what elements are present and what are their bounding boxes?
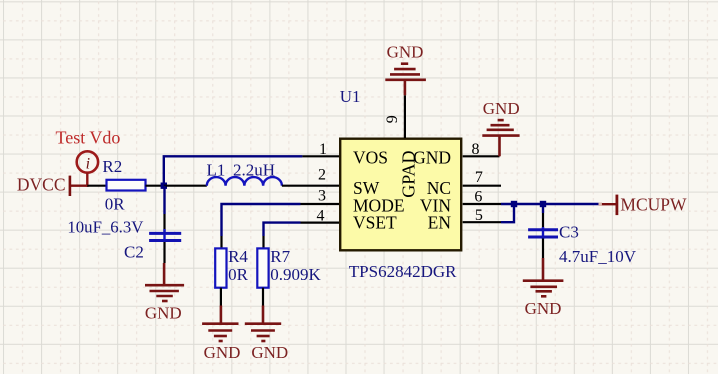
svg-text:GND: GND xyxy=(483,99,520,118)
pin 7 NC xyxy=(427,169,501,198)
svg-text:R4: R4 xyxy=(228,247,248,266)
port MCUPW xyxy=(602,195,687,216)
capacitor C3 xyxy=(528,204,637,266)
ground GND (C2) xyxy=(145,263,184,322)
svg-text:DVCC: DVCC xyxy=(17,174,66,194)
port DVCC xyxy=(17,174,89,196)
svg-text:R7: R7 xyxy=(270,247,290,266)
junction at R2/C2/L1 node xyxy=(161,183,167,189)
inductor L1 xyxy=(207,161,282,186)
wire MODE net: pin3 over and down to R4 xyxy=(222,204,301,236)
svg-text:MCUPW: MCUPW xyxy=(620,195,687,215)
pin 8 GND xyxy=(413,141,499,168)
pin 1 VOS xyxy=(302,141,388,168)
junction EN/VIN xyxy=(511,201,517,207)
svg-text:i: i xyxy=(86,155,90,172)
svg-text:9: 9 xyxy=(384,115,401,123)
pin 9 GPAD xyxy=(384,95,419,198)
pin 4 VSET xyxy=(301,207,398,232)
wire L1 to pin 2 xyxy=(282,185,339,187)
svg-text:GND: GND xyxy=(413,148,451,168)
svg-text:GND: GND xyxy=(387,42,424,61)
svg-text:C2: C2 xyxy=(124,243,144,262)
wire junction to L1 xyxy=(164,185,207,187)
svg-text:GND: GND xyxy=(145,303,182,322)
IC U1 TPS62842DGR body xyxy=(340,139,461,281)
svg-text:4.7uF_10V: 4.7uF_10V xyxy=(559,247,637,266)
svg-text:TPS62842DGR: TPS62842DGR xyxy=(349,262,457,281)
svg-text:10uF_6.3V: 10uF_6.3V xyxy=(67,218,143,237)
svg-text:VOS: VOS xyxy=(353,148,388,168)
wire net VOS: junction up and over to pin 1 xyxy=(164,156,303,185)
svg-text:0R: 0R xyxy=(105,195,126,214)
svg-text:4: 4 xyxy=(317,207,325,224)
svg-text:3: 3 xyxy=(318,188,326,205)
pin 3 MODE xyxy=(301,188,405,216)
svg-text:6: 6 xyxy=(474,188,482,205)
pin 2 SW xyxy=(318,167,380,198)
resistor R2 xyxy=(87,157,164,214)
ground GND (pin 9) xyxy=(385,42,426,95)
svg-text:8: 8 xyxy=(472,141,480,158)
svg-text:1: 1 xyxy=(319,141,327,158)
resistor R7 xyxy=(257,247,321,306)
ground GND (R7) xyxy=(245,306,288,362)
svg-text:GND: GND xyxy=(251,343,288,362)
ground GND (R4) xyxy=(202,306,240,362)
svg-text:GND: GND xyxy=(204,343,241,362)
ground GND (pin 8) xyxy=(482,99,519,156)
pin 5 EN xyxy=(428,207,501,233)
svg-text:2: 2 xyxy=(318,167,326,184)
svg-text:EN: EN xyxy=(428,212,452,232)
no-ERC marker at wire end xyxy=(599,203,603,207)
svg-text:GND: GND xyxy=(525,299,562,318)
ground GND (C3) xyxy=(523,258,564,318)
svg-text:0.909K: 0.909K xyxy=(270,265,321,284)
capacitor C2 xyxy=(67,186,181,263)
resistor R4 xyxy=(215,247,248,306)
svg-text:VSET: VSET xyxy=(353,212,397,232)
wire VIN net: pin 6 to MCUPW xyxy=(501,203,601,205)
wire VSET net: pin4 over and down to R7 xyxy=(264,223,301,236)
svg-text:7: 7 xyxy=(475,169,483,186)
junction C3/VIN xyxy=(540,201,546,207)
svg-text:Test Vdo: Test Vdo xyxy=(56,128,121,148)
svg-text:R2: R2 xyxy=(102,157,122,176)
pin 6 VIN xyxy=(420,188,501,215)
test point TP (Test Vdo) xyxy=(56,128,121,187)
svg-text:C3: C3 xyxy=(559,223,579,242)
wire EN net: pin 5 up to VIN wire xyxy=(501,204,514,222)
svg-text:5: 5 xyxy=(475,207,483,224)
svg-text:0R: 0R xyxy=(228,265,249,284)
svg-text:U1: U1 xyxy=(340,87,361,106)
